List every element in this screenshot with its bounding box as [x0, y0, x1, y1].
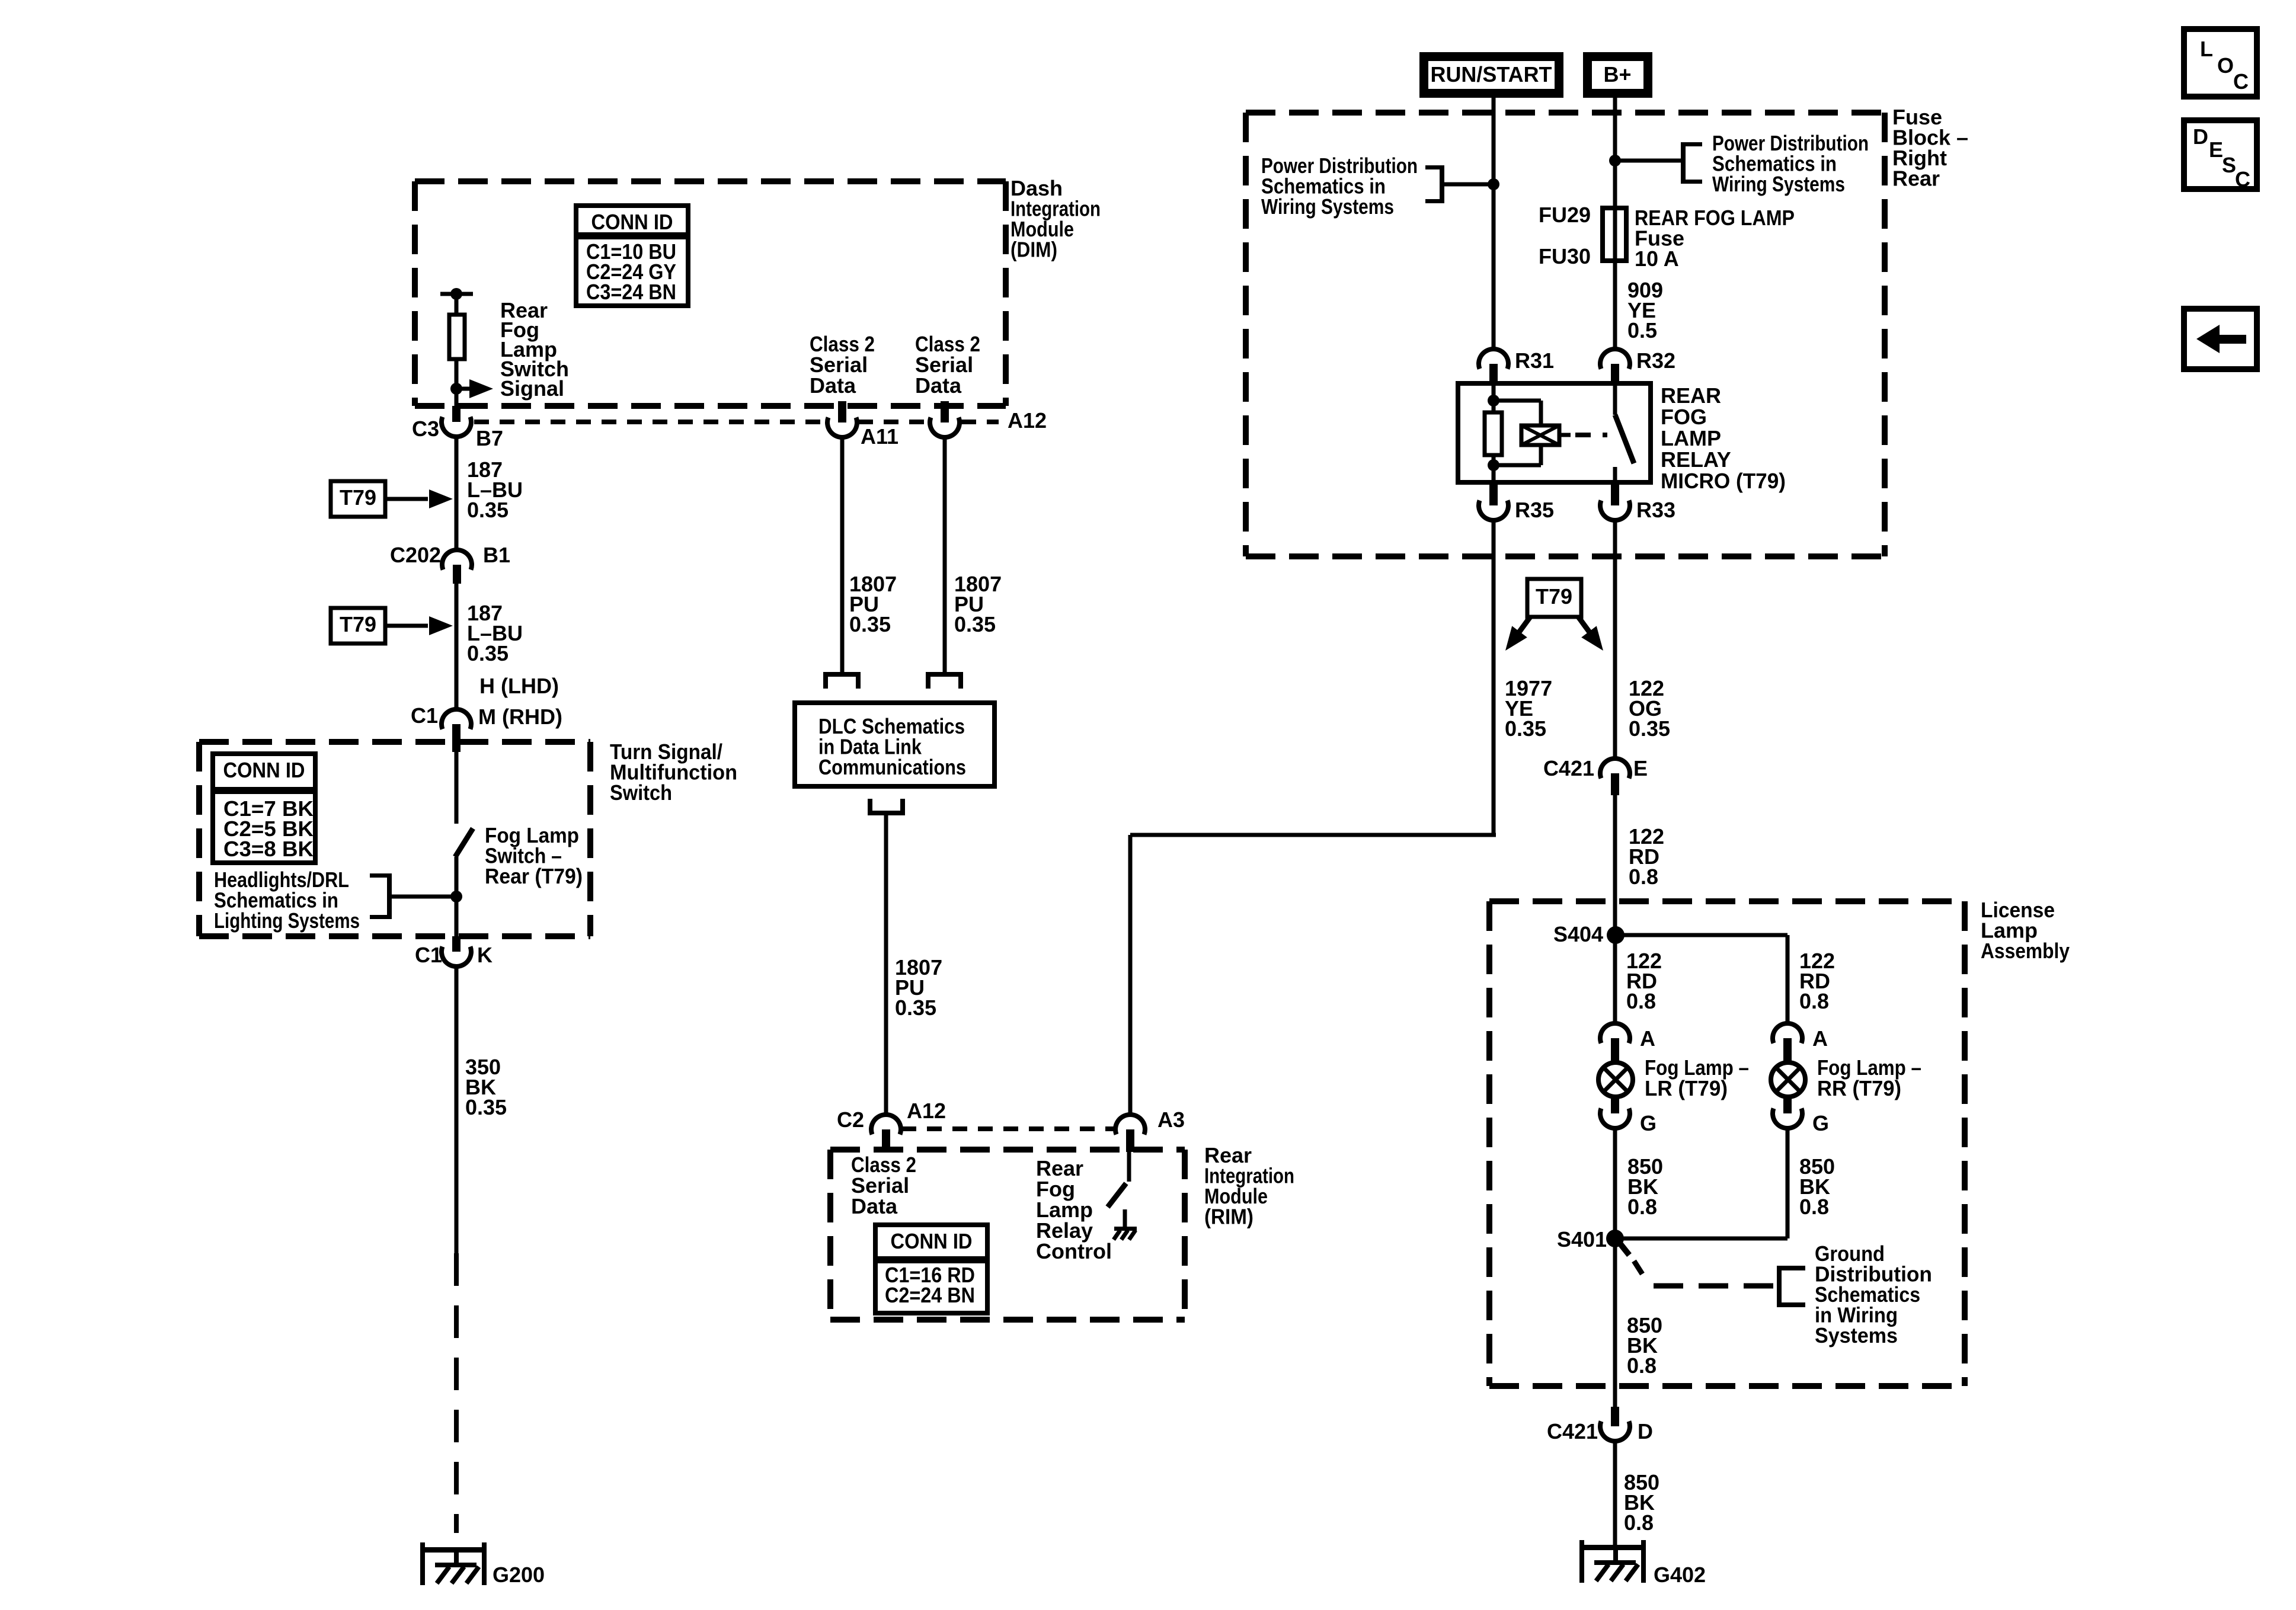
svg-text:LR (T79): LR (T79) [1645, 1076, 1728, 1100]
svg-text:Data: Data [851, 1194, 898, 1218]
svg-text:Systems: Systems [1815, 1323, 1898, 1347]
ground G402 [1579, 1545, 1646, 1550]
svg-text:Data: Data [915, 373, 962, 398]
node with arrow: Rear Fog Lamp Switch Signal [450, 383, 462, 395]
svg-text:0.8: 0.8 [1626, 989, 1656, 1013]
svg-text:Wiring Systems: Wiring Systems [1712, 172, 1845, 196]
svg-text:L: L [2200, 37, 2213, 61]
svg-text:D: D [1638, 1419, 1653, 1443]
reference box: DLC Schematics in Data Link Communications [795, 703, 994, 786]
module box: Turn Signal/Multifunction Switch, dashed outline [199, 739, 590, 745]
connector A (right lamp) [1773, 1023, 1802, 1044]
svg-text:B1: B1 [483, 543, 510, 567]
svg-text:0.35: 0.35 [849, 612, 891, 636]
CONN ID table (switch): C1=7 BK, C2=5 BK, C3=8 BK [213, 754, 315, 863]
svg-text:B+: B+ [1603, 62, 1631, 87]
svg-text:E: E [2209, 137, 2223, 162]
connector R33 [1611, 482, 1619, 505]
svg-text:Wiring Systems: Wiring Systems [1261, 194, 1394, 219]
svg-text:C3=8 BK: C3=8 BK [223, 837, 314, 861]
wire: circuit 187 upper segment [455, 437, 459, 550]
connector G (right lamp) [1783, 1097, 1792, 1113]
wire: circuit 850 below S401 [1613, 1238, 1617, 1407]
lamp: Fog Lamp - LR (T79) [1598, 1062, 1633, 1097]
svg-text:A12: A12 [1008, 408, 1047, 433]
svg-text:LAMP: LAMP [1661, 426, 1721, 450]
svg-text:Communications: Communications [818, 755, 966, 779]
connector C421 pin E [1600, 758, 1630, 779]
svg-text:CONN ID: CONN ID [223, 758, 305, 782]
wire: circuit 1807 from A12 [943, 437, 947, 672]
relay winding resistor [1485, 412, 1502, 455]
svg-text:C3: C3 [412, 417, 439, 441]
connector R31 [1479, 349, 1508, 369]
connector C1 pin M (RHD) [442, 709, 471, 729]
T79 reference box with arrow (upper) [331, 481, 385, 517]
svg-text:G: G [1640, 1111, 1657, 1135]
connector A3 (RIM) [1115, 1115, 1145, 1135]
back arrow box [2184, 309, 2257, 369]
svg-text:H (LHD): H (LHD) [479, 674, 559, 698]
svg-text:CONN ID: CONN ID [591, 210, 673, 234]
svg-text:C202: C202 [390, 543, 441, 567]
connector A12 [941, 401, 949, 422]
relay switch contact [1613, 383, 1617, 415]
svg-text:T79: T79 [340, 612, 376, 636]
svg-text:G: G [1812, 1111, 1829, 1135]
svg-text:RR (T79): RR (T79) [1817, 1076, 1901, 1100]
svg-text:Lighting Systems: Lighting Systems [214, 908, 360, 933]
wire: circuit 122 OG from R33 [1613, 520, 1617, 759]
connector R32 [1600, 349, 1630, 369]
svg-text:FU30: FU30 [1539, 244, 1591, 268]
wire from RUN/START to relay R31 [1492, 98, 1496, 350]
wire left lamp feed [1613, 935, 1617, 1024]
wire: circuit 850 right lamp to S401 [1786, 1128, 1790, 1238]
svg-text:0.8: 0.8 [1799, 989, 1829, 1013]
splice S404 [1607, 926, 1625, 944]
svg-text:Rear: Rear [1892, 167, 1940, 191]
fuse FU29/FU30: REAR FOG LAMP Fuse 10 A [1613, 208, 1617, 261]
connector dashed line along RIM top [901, 1126, 1115, 1131]
wire below fuse to R32 [1613, 261, 1617, 350]
connector C2 pin A12 (RIM) [871, 1115, 901, 1135]
svg-text:0.8: 0.8 [1627, 1195, 1657, 1219]
wire: circuit 1807 from A11 [840, 437, 845, 672]
svg-text:M (RHD): M (RHD) [478, 705, 562, 729]
svg-text:Control: Control [1036, 1239, 1112, 1263]
CONN ID table (RIM): C1=16 RD, C2=24 BN [875, 1225, 987, 1313]
power feed box: RUN/START [1419, 52, 1563, 98]
svg-text:0.35: 0.35 [467, 498, 509, 522]
svg-text:Assembly: Assembly [1981, 939, 2070, 963]
off-page bracket below DLC box [868, 799, 872, 815]
svg-text:C2: C2 [837, 1108, 864, 1132]
svg-text:R33: R33 [1636, 498, 1675, 522]
connector C3 pin B7 [452, 406, 461, 422]
module box: Dash Integration Module (DIM), dashed outline [415, 178, 1006, 184]
svg-text:O: O [2217, 53, 2234, 78]
svg-text:Data: Data [810, 373, 856, 398]
svg-text:A3: A3 [1157, 1108, 1185, 1132]
svg-text:G200: G200 [493, 1563, 545, 1587]
svg-text:(DIM): (DIM) [1011, 238, 1057, 262]
relay actuator dashed link [1559, 433, 1571, 437]
svg-text:S: S [2222, 153, 2236, 177]
svg-text:C3=24 BN: C3=24 BN [586, 280, 676, 304]
wire: circuit 850 to G402 [1613, 1441, 1617, 1547]
svg-text:RUN/START: RUN/START [1431, 62, 1552, 87]
svg-text:CONN ID: CONN ID [891, 1229, 973, 1253]
branch wire to right lamp [1616, 933, 1787, 937]
RIM internal driver switch and ground [1127, 1152, 1131, 1182]
svg-text:K: K [477, 943, 493, 967]
svg-text:RELAY: RELAY [1661, 447, 1731, 472]
module box: Fuse Block - Right Rear, dashed outline [1246, 110, 1885, 116]
off-page bracket into DLC (A12) [926, 672, 963, 677]
svg-text:C: C [2233, 69, 2249, 94]
svg-text:A: A [1640, 1026, 1655, 1051]
svg-text:T79: T79 [340, 485, 376, 510]
wire: rear fog lamp relay control from relay R35 down and across to A3 [1492, 521, 1496, 835]
fog lamp switch - rear (T79): wire and blade [455, 752, 459, 824]
svg-text:MICRO (T79): MICRO (T79) [1661, 469, 1786, 493]
node and bracket to Power Distribution (left) [1488, 178, 1499, 190]
wire: circuit 187 lower segment [455, 584, 459, 709]
svg-text:T79: T79 [1536, 584, 1572, 609]
module box: License Lamp Assembly, dashed outline [1489, 898, 1965, 904]
svg-text:G402: G402 [1654, 1563, 1706, 1587]
svg-text:0.35: 0.35 [954, 612, 996, 636]
svg-text:R31: R31 [1515, 348, 1554, 373]
bracket and wire to Headlights/DRL reference [370, 873, 392, 878]
svg-text:C: C [2235, 167, 2250, 191]
svg-text:(RIM): (RIM) [1204, 1205, 1253, 1229]
wire: circuit 1807 to RIM C2 [884, 815, 888, 1115]
lamp: Fog Lamp - RR (T79) [1771, 1062, 1805, 1097]
svg-text:C2=24 BN: C2=24 BN [885, 1283, 975, 1307]
module box: Rear Integration Module (RIM), dashed outline [830, 1147, 1185, 1153]
svg-text:0.35: 0.35 [467, 641, 509, 665]
svg-text:0.8: 0.8 [1627, 1353, 1657, 1378]
svg-text:R35: R35 [1515, 498, 1554, 522]
svg-text:0.35: 0.35 [895, 996, 936, 1020]
wire: circuit 350 solid segment [455, 966, 459, 1253]
svg-text:FU29: FU29 [1539, 203, 1591, 227]
relay box: REAR FOG LAMP RELAY MICRO (T79) [1458, 383, 1651, 482]
svg-text:0.35: 0.35 [465, 1095, 507, 1119]
svg-text:Switch: Switch [610, 780, 672, 805]
svg-text:A11: A11 [861, 424, 898, 449]
CONN ID table (DIM): C1=10 BU, C2=24 GY, C3=24 BN [576, 206, 688, 306]
T79 reference box with arrow (lower) [331, 608, 385, 644]
svg-text:B7: B7 [476, 426, 503, 450]
wire below resistor [455, 359, 459, 406]
svg-text:Rear (T79): Rear (T79) [485, 864, 583, 888]
connector C1 pin K [452, 936, 461, 952]
svg-text:A: A [1812, 1026, 1828, 1051]
svg-text:C421: C421 [1547, 1419, 1598, 1443]
power feed box: B+ [1583, 52, 1652, 98]
svg-text:0.8: 0.8 [1624, 1510, 1654, 1535]
svg-text:Signal: Signal [500, 376, 564, 401]
dashed reference link to Ground Distribution [1620, 1243, 1629, 1255]
resistor: rear fog lamp switch signal pull-up, top bar and node [440, 292, 473, 296]
relay coil branch wires [1492, 383, 1496, 412]
svg-text:FOG: FOG [1661, 405, 1707, 429]
svg-text:C1: C1 [415, 943, 442, 967]
wire: circuit 122 RD to S404 [1613, 795, 1617, 935]
svg-text:S401: S401 [1557, 1227, 1607, 1251]
node and bracket to Power Distribution (right) [1609, 155, 1621, 167]
connector G (left lamp) [1611, 1097, 1619, 1113]
LOC legend box [2184, 29, 2257, 97]
connector C421 pin D [1611, 1407, 1619, 1426]
svg-text:D: D [2193, 124, 2208, 149]
wire: circuit 350 dashed segment to ground [454, 1253, 459, 1533]
svg-text:A12: A12 [907, 1099, 946, 1123]
svg-text:S404: S404 [1553, 922, 1603, 946]
wire: circuit 850 left lamp to S401 [1613, 1128, 1617, 1238]
node: switch to headlights/DRL tap [450, 891, 462, 902]
svg-text:0.5: 0.5 [1627, 318, 1657, 343]
svg-text:0.35: 0.35 [1629, 716, 1670, 741]
connector A (left lamp) [1600, 1023, 1630, 1044]
svg-text:0.8: 0.8 [1799, 1195, 1829, 1219]
connector C202 pin B1 [442, 550, 472, 570]
off-page bracket into DLC (A11) [823, 672, 861, 677]
svg-text:0.8: 0.8 [1629, 865, 1658, 889]
relay coil symbol (box with X) [1521, 425, 1559, 445]
T79 reference box with arrows (harness) [1527, 579, 1581, 617]
connector R35 [1489, 482, 1498, 505]
DESC legend box [2184, 120, 2257, 189]
splice S401 [1606, 1230, 1624, 1247]
svg-text:REAR: REAR [1661, 383, 1721, 408]
svg-text:R32: R32 [1636, 348, 1675, 373]
svg-text:10 A: 10 A [1635, 247, 1679, 271]
wire from B+ to fuse [1613, 98, 1617, 208]
svg-text:E: E [1633, 756, 1648, 780]
svg-text:C1: C1 [411, 703, 438, 728]
connector dashed line along DIM bottom [474, 420, 825, 424]
connector A11 [838, 401, 846, 422]
svg-text:C421: C421 [1543, 756, 1594, 780]
ground G200 [420, 1547, 487, 1553]
svg-text:0.35: 0.35 [1505, 716, 1546, 741]
